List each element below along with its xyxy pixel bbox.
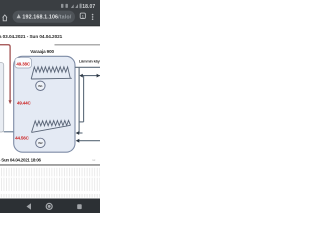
status icon signal [75, 4, 78, 8]
svg-text:Varaaja 900: Varaaja 900 [30, 49, 54, 54]
hot water outlet pipe [75, 66, 100, 68]
page background [0, 0, 100, 213]
cold water inlet pipe (bottom) [78, 140, 100, 142]
cold feed pipe (upper) [82, 75, 100, 77]
android navbar [0, 199, 100, 214]
svg-text:IN1: IN1 [38, 84, 43, 88]
circulation drop pipe V1 [78, 67, 80, 133]
navbar recent button [77, 204, 82, 209]
chart horizontal gap [0, 176, 100, 177]
warning triangle [17, 14, 21, 18]
axis label smudges [1, 194, 100, 198]
svg-text:49.38C: 49.38C [16, 61, 31, 66]
element E1 power circle [36, 81, 45, 90]
svg-text:- Sun 04.04.2021 18:06: - Sun 04.04.2021 18:06 [0, 157, 42, 162]
status icon misc1 [61, 4, 63, 8]
return pipe (bottom left) [4, 131, 14, 132]
svg-text:1: 1 [82, 15, 84, 19]
tab counter box [80, 13, 85, 18]
svg-text:tal: tal [92, 158, 95, 162]
svg-text:a 03.04.2021 - Sun 04.04.2021: a 03.04.2021 - Sun 04.04.2021 [0, 34, 63, 39]
heating element E2 zigzag [32, 120, 71, 132]
chart separator rule [0, 164, 100, 166]
url pill [13, 11, 75, 23]
boiler (left, cut off) [0, 63, 4, 132]
circulation return into tank [79, 132, 83, 134]
svg-text:192.168.1.106/talo/: 192.168.1.106/talo/ [22, 15, 71, 21]
svg-text:IN2: IN2 [38, 141, 43, 145]
menu dots [92, 14, 94, 20]
svg-text:18.07: 18.07 [82, 4, 95, 10]
cold water inlet arrowhead [76, 139, 80, 143]
hot supply pipe (red, left) [0, 45, 10, 101]
sensor badge T1 [15, 58, 32, 68]
browser chrome bar [0, 0, 100, 26]
chrome bottom edge [0, 25, 100, 26]
chart gridlines [1, 168, 100, 191]
svg-text:49.44C: 49.44C [17, 100, 32, 105]
hot supply arrowhead [9, 100, 12, 104]
cold feed arrowhead at V1 [79, 74, 82, 78]
svg-text:44.56C: 44.56C [15, 135, 30, 140]
status icon wifi [71, 4, 74, 8]
status icon misc2 [66, 4, 68, 8]
url bar home icon [3, 15, 7, 21]
pipe to heating circuit (gray, right) [55, 44, 101, 45]
circulation return arrowhead [76, 131, 80, 135]
navbar back button [27, 203, 32, 210]
V1-V2 jog [79, 121, 84, 123]
element E2 power circle [36, 138, 45, 147]
heating element E1 zigzag [31, 67, 70, 79]
heating element E2 baseline [32, 125, 71, 132]
tank Varaaja 900 [14, 56, 75, 152]
status icon battery [80, 4, 82, 9]
drop pipe V2 [83, 76, 85, 122]
svg-text:Lämmin käyttö: Lämmin käyttö [79, 60, 100, 64]
cold feed end arrowhead right [97, 74, 100, 78]
navbar home button [46, 203, 52, 209]
heating element E1 baseline [31, 77, 72, 80]
